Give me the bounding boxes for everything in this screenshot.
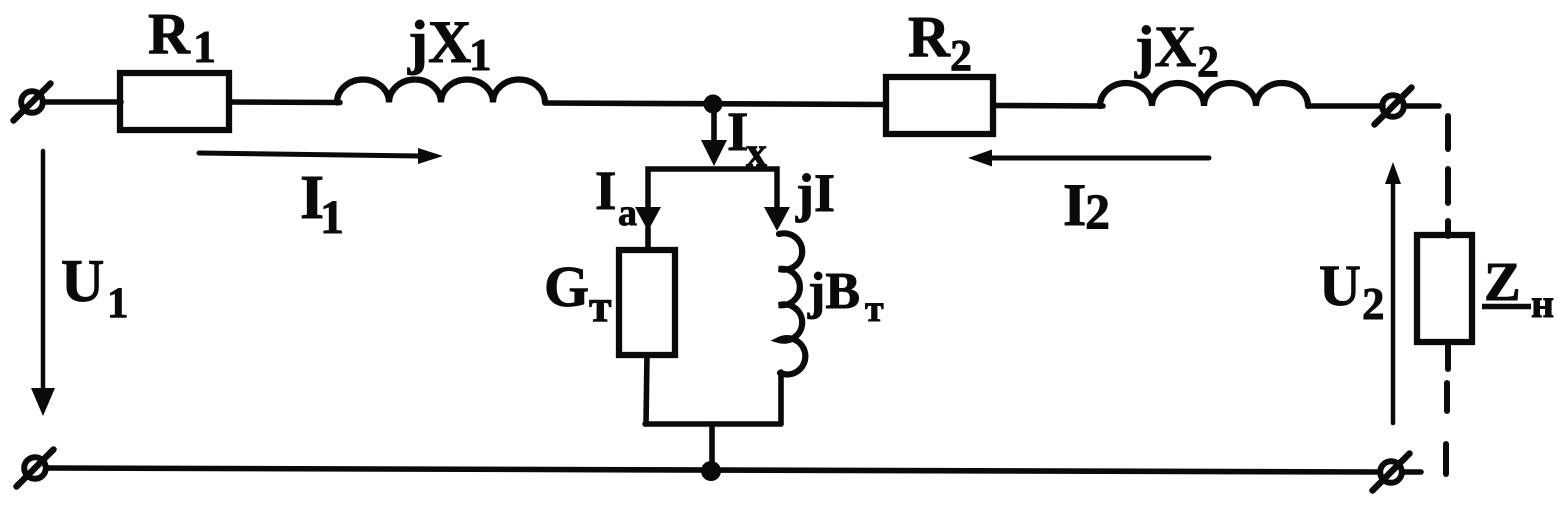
svg-text:R: R	[148, 1, 191, 66]
svg-text:jX: jX	[407, 9, 471, 75]
wire shunt to bottom rail	[709, 424, 715, 469]
svg-text:x: x	[746, 130, 767, 176]
wire terminal to R1	[44, 99, 121, 105]
arrow Ia	[635, 207, 661, 231]
wire R1 to jX1	[229, 99, 340, 105]
svg-text:jB: jB	[807, 263, 860, 320]
svg-text:a: a	[618, 192, 637, 234]
svg-text:I: I	[1063, 172, 1086, 238]
dashed wire below Z box	[1446, 342, 1448, 474]
arrow Ix	[701, 112, 727, 166]
svg-text:1: 1	[107, 280, 129, 327]
wire jB to shunt bottom	[778, 372, 784, 424]
svg-text:2: 2	[1085, 183, 1110, 239]
inductor jX1	[337, 80, 545, 103]
inductor jB	[779, 233, 805, 374]
svg-text:G: G	[544, 254, 589, 319]
svg-text:jX: jX	[1134, 14, 1196, 79]
load impedance Z box	[1417, 235, 1472, 342]
svg-text:U: U	[61, 248, 104, 314]
wire stub after top-right terminal	[1406, 103, 1439, 109]
terminal top-left	[14, 84, 51, 121]
terminal top-right	[1375, 88, 1412, 125]
svg-text:н: н	[1531, 281, 1554, 326]
wire shunt-branch top	[648, 169, 777, 206]
inductor jX2	[1100, 83, 1308, 106]
wire R2 to jX2	[993, 103, 1103, 109]
svg-text:jI: jI	[795, 163, 835, 223]
svg-text:т: т	[865, 288, 884, 330]
svg-text:I: I	[595, 160, 616, 221]
wire jX2 to terminal	[1308, 103, 1383, 109]
arrow I2	[968, 150, 1209, 167]
terminal bottom-right	[1373, 454, 1410, 491]
arrow jI	[764, 207, 790, 231]
bottom rail wire	[47, 468, 1379, 472]
arrow U2	[1385, 162, 1401, 423]
svg-text:2: 2	[1197, 37, 1219, 86]
svg-text:1: 1	[320, 191, 344, 244]
svg-text:2: 2	[950, 31, 972, 80]
svg-text:R: R	[908, 4, 951, 69]
node dot bottom	[701, 461, 721, 481]
wire stub after bottom-right terminal	[1403, 469, 1421, 475]
resistor R1	[120, 73, 229, 130]
arrow I1	[199, 148, 443, 164]
conductance G box	[619, 250, 675, 355]
svg-text:U: U	[1319, 253, 1361, 318]
arrow U1	[31, 151, 55, 416]
terminal bottom-left	[17, 450, 54, 487]
svg-text:1: 1	[469, 30, 492, 80]
node dot top	[704, 95, 723, 114]
dashed wire top right	[1445, 116, 1451, 236]
wire shunt-branch bottom	[645, 421, 781, 427]
resistor R2	[886, 77, 993, 134]
svg-text:2: 2	[1362, 279, 1385, 329]
wire G box to shunt bottom	[646, 355, 647, 424]
wire jX1 to node to R2	[545, 103, 886, 105]
svg-text:Z: Z	[1484, 251, 1521, 312]
wire Ia arrow to G box	[645, 228, 651, 250]
svg-text:т: т	[589, 280, 612, 331]
svg-text:1: 1	[193, 21, 216, 72]
